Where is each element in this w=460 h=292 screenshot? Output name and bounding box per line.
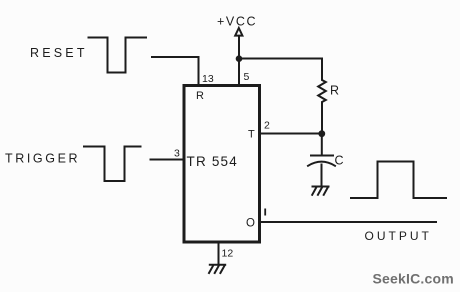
wire trigger to pin 3: [151, 159, 185, 161]
IC U1 TR 554 body: [184, 86, 260, 243]
power +VCC line: [238, 36, 240, 84]
svg-text:12: 12: [222, 248, 234, 260]
output waveform: [351, 162, 446, 199]
capacitor C: [311, 155, 333, 157]
svg-text:+VCC: +VCC: [217, 15, 257, 29]
node R/C/pin2 junction: [318, 130, 325, 137]
trigger waveform: [84, 147, 141, 182]
svg-text:C: C: [335, 154, 344, 168]
svg-text:TR 554: TR 554: [187, 154, 238, 169]
node VCC junction: [236, 55, 243, 62]
svg-text:3: 3: [174, 148, 180, 160]
svg-text:TRIGGER: TRIGGER: [5, 152, 80, 166]
wire VCC node to resistor: [239, 58, 322, 60]
wire reset to pin 13: [152, 57, 199, 85]
svg-text:OUTPUT: OUTPUT: [365, 229, 432, 243]
svg-text:RESET: RESET: [30, 46, 88, 60]
svg-text:R: R: [196, 90, 204, 102]
svg-text:2: 2: [264, 120, 270, 132]
wire pin 2 to node: [259, 133, 322, 135]
wire pin 12: [218, 244, 220, 265]
power symbol +VCC arrowhead: [235, 28, 242, 36]
wire node to capacitor: [321, 134, 323, 156]
svg-text:5: 5: [244, 71, 250, 83]
reset waveform: [89, 38, 147, 73]
svg-text:O: O: [246, 218, 255, 230]
svg-text:13: 13: [202, 73, 214, 85]
svg-text:R: R: [330, 84, 339, 98]
ground (capacitor): [312, 187, 328, 195]
wire pin 1 output: [261, 221, 436, 223]
svg-text:SeekIC.com: SeekIC.com: [373, 271, 454, 287]
pin number 1: [264, 209, 266, 216]
svg-text:T: T: [248, 129, 255, 141]
resistor R: [318, 59, 326, 134]
ground (pin 12): [209, 265, 225, 273]
